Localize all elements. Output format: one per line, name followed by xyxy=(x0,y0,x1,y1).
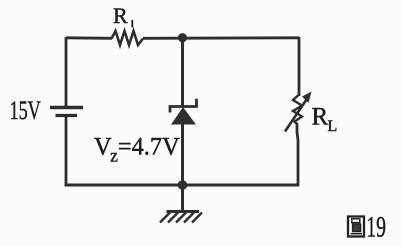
svg-text:R: R xyxy=(312,104,329,131)
wire: top-left segment from left corner to resistor xyxy=(66,36,112,39)
svg-text:19: 19 xyxy=(366,211,386,244)
zener diode D1 (Vz=4.7V) xyxy=(170,99,197,124)
svg-text:L: L xyxy=(328,118,338,135)
svg-text:R: R xyxy=(113,3,128,28)
wire: ground stub xyxy=(181,185,184,211)
wire: middle branch lower (zener anode to bottom junction) xyxy=(181,124,184,185)
variable resistor RL xyxy=(285,92,312,132)
battery 15V xyxy=(50,108,83,116)
svg-text:=4.7V: =4.7V xyxy=(118,133,180,160)
resistor R1 xyxy=(112,31,144,45)
svg-text:z: z xyxy=(110,145,118,165)
label Vz=4.7V xyxy=(94,133,180,165)
wire: top-right segment from resistor to right corner xyxy=(143,36,299,39)
node: top junction dot xyxy=(178,33,187,42)
svg-text:V: V xyxy=(94,133,112,160)
wire: middle branch upper (top junction to zener cathode) xyxy=(181,38,184,106)
label R1 xyxy=(113,3,132,28)
wire: right side lower (RL down to bottom corner) xyxy=(297,123,298,186)
label RL xyxy=(312,104,338,136)
wire: bottom rail xyxy=(65,184,299,187)
wire: left side upper (top corner down to battery) xyxy=(65,37,68,106)
wire: right side upper (top corner down to RL) xyxy=(298,37,301,96)
wire: left side lower (battery down to bottom corner) xyxy=(65,117,68,186)
svg-text:15V: 15V xyxy=(10,96,41,125)
ground xyxy=(160,212,202,223)
node: bottom junction dot xyxy=(178,180,188,190)
label figure 圖 (drawn glyph) xyxy=(348,217,364,237)
